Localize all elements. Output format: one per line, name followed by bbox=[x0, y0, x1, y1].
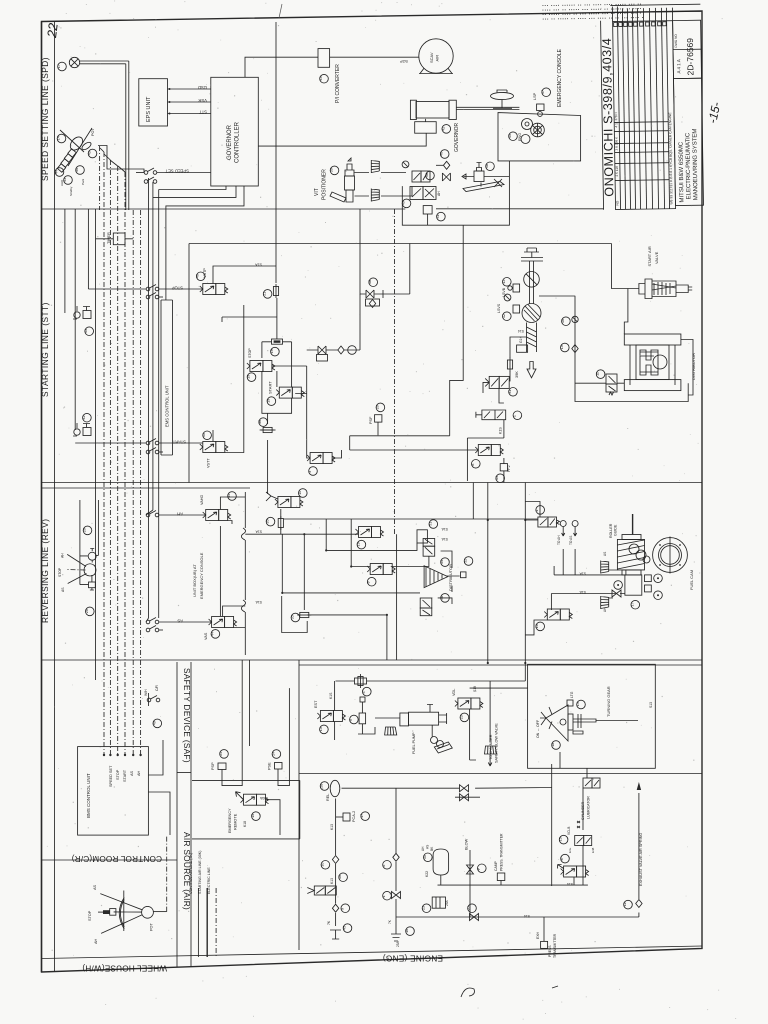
svg-text:44: 44 bbox=[210, 632, 214, 636]
valve V11 bbox=[606, 374, 617, 395]
svg-text:CAMP: CAMP bbox=[494, 860, 498, 871]
bottle riser bbox=[440, 875, 442, 885]
follower box bbox=[625, 575, 651, 595]
emergency remote valve bbox=[236, 792, 269, 806]
svg-text:POT: POT bbox=[150, 923, 154, 931]
circle tag 54 bbox=[440, 558, 449, 567]
diamond on riser bbox=[332, 856, 338, 864]
VDL riser down bbox=[470, 709, 476, 760]
svg-text:AS: AS bbox=[130, 770, 134, 776]
speed set switch S-SET bbox=[136, 168, 211, 174]
svg-text:56: 56 bbox=[75, 168, 79, 172]
circle tag 42t bbox=[82, 413, 91, 422]
svg-text:AH: AH bbox=[137, 770, 141, 776]
svg-text:S14: S14 bbox=[524, 914, 530, 918]
riser from sub box bbox=[450, 225, 464, 436]
wires at 435/448 bbox=[332, 436, 478, 458]
svg-text:EST: EST bbox=[314, 700, 318, 708]
circle tag 19r bbox=[356, 540, 365, 549]
grid h550 bbox=[326, 543, 417, 550]
svg-text:MANOEUVRING SYSTEM: MANOEUVRING SYSTEM bbox=[692, 129, 699, 201]
svg-text:AS: AS bbox=[61, 587, 65, 592]
svg-text:VDL: VDL bbox=[452, 689, 456, 696]
TO AH arrow bbox=[557, 521, 566, 546]
svg-text:FUEL PUMP: FUEL PUMP bbox=[412, 732, 416, 754]
svg-text:AIR: AIR bbox=[435, 55, 440, 62]
circle tag 31k bbox=[508, 388, 517, 397]
svg-text:STOP: STOP bbox=[58, 567, 62, 577]
circle tag 44s bbox=[210, 630, 219, 639]
restrictor below AH valve bbox=[278, 516, 283, 530]
lever on AH valve bbox=[266, 492, 278, 501]
circle tag 26b bbox=[85, 607, 94, 616]
svg-text:VALVE: VALVE bbox=[654, 251, 659, 264]
valve below turning gear bbox=[583, 778, 600, 788]
svg-text:K13: K13 bbox=[330, 824, 334, 830]
LSVB limit switch bbox=[502, 284, 520, 297]
svg-text:10: 10 bbox=[320, 863, 324, 867]
svg-text:LTG: LTG bbox=[570, 691, 574, 698]
svg-text:TO AH: TO AH bbox=[557, 535, 561, 545]
circle tag 17f bbox=[630, 600, 639, 609]
TO AS arrow bbox=[569, 521, 578, 546]
circle tag 1r bbox=[535, 506, 544, 515]
svg-text:9: 9 bbox=[367, 582, 371, 584]
section divider REV/SAF bbox=[42, 659, 703, 661]
svg-text:12: 12 bbox=[502, 314, 506, 318]
wire VAHD right riser bbox=[220, 497, 245, 524]
start pilot sub-box bbox=[262, 342, 292, 424]
wire VAST right bbox=[223, 606, 246, 628]
svg-text:22: 22 bbox=[44, 21, 61, 39]
second contact row start bbox=[146, 448, 163, 454]
svg-text:24: 24 bbox=[219, 752, 223, 756]
hand pull valve V1 bbox=[476, 410, 506, 420]
svg-text:STOP: STOP bbox=[88, 910, 92, 921]
circle tag 43b bbox=[63, 176, 72, 185]
fuel pump link element bbox=[358, 697, 375, 734]
long vertical 393.6 bbox=[394, 209, 396, 534]
restrictor on riser bbox=[273, 284, 278, 298]
svg-text:S1A: S1A bbox=[579, 590, 586, 594]
riser x245 with breaks bbox=[244, 492, 246, 655]
wire VSR bbox=[168, 98, 211, 103]
svg-text:DWG NO: DWG NO bbox=[674, 34, 678, 48]
wire run w1 bbox=[64, 209, 66, 313]
circle tag 40 bbox=[425, 171, 434, 180]
svg-text:K22: K22 bbox=[425, 871, 429, 877]
accumulator small bbox=[432, 897, 449, 908]
circle tag 52 bbox=[464, 557, 473, 566]
pipe upper segment bbox=[530, 261, 534, 304]
ENG label circle 45 bbox=[508, 132, 522, 141]
svg-text:VSTT: VSTT bbox=[206, 458, 210, 468]
circle tag 44 bbox=[55, 168, 64, 177]
svg-text:CYLINDER: CYLINDER bbox=[581, 801, 585, 820]
circle tag 8v bbox=[471, 460, 480, 469]
wire run w2 bbox=[74, 209, 76, 430]
svg-text:AHD: AHD bbox=[60, 179, 64, 186]
circle tag 14 bbox=[57, 134, 66, 143]
svg-text:13: 13 bbox=[319, 727, 323, 731]
svg-text:BMS CONTROL UNIT: BMS CONTROL UNIT bbox=[86, 773, 91, 818]
valve V10r bbox=[544, 609, 572, 620]
main pipe K14 lower bbox=[396, 916, 639, 918]
svg-text:AH: AH bbox=[603, 607, 607, 612]
circle tag 10a bbox=[298, 489, 307, 498]
svg-text:EMERGENCY CONSOLE: EMERGENCY CONSOLE bbox=[557, 48, 563, 107]
circle tag 30b bbox=[423, 853, 432, 862]
wire run w6 electric bbox=[109, 160, 111, 755]
grid h519 bbox=[281, 509, 538, 534]
revision table frame bbox=[613, 21, 676, 210]
wheel house telegraph bbox=[88, 884, 154, 944]
circle tag 39 bbox=[330, 166, 339, 175]
wires below controller bbox=[153, 186, 244, 300]
inner box top line bbox=[189, 243, 612, 245]
circle tag 1e bbox=[382, 891, 391, 900]
circle tag 42 bbox=[441, 125, 450, 134]
svg-text:S1A: S1A bbox=[441, 527, 448, 531]
pilot box 41 bbox=[423, 206, 445, 221]
circle tag 10air bbox=[320, 861, 329, 870]
svg-text:51: 51 bbox=[428, 522, 432, 526]
riser x220 bbox=[219, 526, 221, 616]
diamond 2 on riser bbox=[332, 904, 338, 912]
circle tag 12p bbox=[502, 312, 511, 321]
wire lamp to riser bbox=[80, 61, 129, 210]
svg-text:1: 1 bbox=[382, 896, 386, 898]
left label strip divider bbox=[54, 21, 56, 971]
title block left boundary bbox=[601, 21, 604, 210]
svg-text:24: 24 bbox=[271, 752, 275, 756]
air supply line to engine bbox=[342, 764, 552, 926]
svg-text:EPS UNIT: EPS UNIT bbox=[146, 96, 152, 122]
box wire V1r bbox=[525, 502, 540, 521]
svg-text:2 5 118: 2 5 118 bbox=[615, 166, 619, 177]
svg-text:10: 10 bbox=[535, 624, 539, 628]
svg-text:14: 14 bbox=[57, 136, 61, 140]
LSP valve bbox=[533, 92, 544, 116]
svg-text:VIT: VIT bbox=[314, 188, 320, 196]
revision row lines bbox=[614, 122, 669, 181]
7K reducing tee bbox=[327, 920, 341, 939]
K1S riser bbox=[503, 420, 505, 438]
wire VIT to valve cluster bbox=[355, 173, 413, 197]
spring comb AS bbox=[601, 561, 609, 574]
svg-text:8: 8 bbox=[560, 858, 564, 860]
AS wire row bbox=[146, 618, 212, 624]
svg-text:PCA-2: PCA-2 bbox=[352, 811, 356, 822]
circle tag 51 bbox=[428, 520, 437, 529]
wire run w11 bbox=[148, 178, 150, 618]
elbow to 39K valve bbox=[509, 337, 526, 381]
svg-text:AH: AH bbox=[177, 512, 183, 517]
circle tag 12e bbox=[623, 900, 632, 909]
revision table header boxes bbox=[614, 22, 667, 27]
svg-text:K1S: K1S bbox=[499, 427, 503, 434]
svg-text:STARTING LINE (STT): STARTING LINE (STT) bbox=[40, 302, 50, 397]
circle tag 56 bbox=[75, 166, 84, 175]
svg-text:36: 36 bbox=[258, 420, 262, 424]
fuel pump bbox=[375, 705, 452, 754]
circle tag 4s bbox=[362, 687, 371, 696]
manual valve on riser bbox=[307, 886, 336, 895]
P/I converter U-PI bbox=[318, 49, 330, 68]
exhaust valve air spring line bbox=[638, 793, 640, 917]
circle tag 44r bbox=[227, 492, 236, 501]
solenoid valve VSTP bbox=[200, 284, 228, 295]
circle tag 18t bbox=[551, 741, 560, 750]
svg-text:AH: AH bbox=[437, 191, 441, 196]
air bottle 30L bbox=[425, 849, 449, 877]
sub box lower bbox=[282, 596, 308, 633]
valve V9 bbox=[367, 564, 395, 575]
svg-text:STARTING AIR LINE (30K): STARTING AIR LINE (30K) bbox=[198, 851, 202, 894]
svg-text:S13: S13 bbox=[649, 702, 653, 708]
svg-text:TO AS: TO AS bbox=[569, 536, 573, 545]
wire run w10 electric bbox=[140, 210, 142, 755]
throttle circle on loop bbox=[572, 316, 578, 322]
svg-text:AH: AH bbox=[421, 846, 425, 851]
lamp L1 bbox=[69, 57, 79, 67]
svg-text:25A: 25A bbox=[396, 940, 400, 947]
svg-text:20: 20 bbox=[375, 405, 379, 409]
svg-text:12: 12 bbox=[623, 902, 627, 906]
svg-text:EXHAUST VALVE AIR SPRING: EXHAUST VALVE AIR SPRING bbox=[639, 833, 643, 886]
stop valve VSTP2 bbox=[247, 361, 275, 372]
drain box bbox=[517, 345, 528, 352]
svg-text:4: 4 bbox=[362, 691, 366, 693]
governor controller U-GC bbox=[211, 77, 258, 186]
SAF/ENG boundary bbox=[299, 773, 702, 775]
svg-text:S1A: S1A bbox=[579, 572, 586, 576]
svg-text:EMERGENCY CONSOLE: EMERGENCY CONSOLE bbox=[199, 552, 204, 599]
circle tag 10r bbox=[535, 622, 544, 631]
circle tags 7/8 bbox=[654, 574, 663, 600]
circle tag 13L bbox=[559, 835, 568, 844]
circle tag 19a bbox=[270, 347, 279, 356]
svg-text:EXH: EXH bbox=[536, 931, 540, 939]
toggle unit A bbox=[73, 306, 91, 319]
svg-text:S14: S14 bbox=[518, 329, 524, 333]
grid h534 bbox=[245, 533, 358, 535]
legend lines bbox=[189, 851, 216, 957]
wire BMS right bbox=[148, 740, 170, 835]
svg-text:Stndby: Stndby bbox=[69, 186, 73, 196]
svg-text:19: 19 bbox=[356, 542, 360, 546]
wire speed set lower contact bbox=[144, 177, 157, 183]
REL relief bottle bbox=[326, 780, 340, 801]
svg-text:E4+: E4+ bbox=[568, 847, 572, 853]
bow tie near follower bbox=[612, 590, 621, 597]
circle tag 14f bbox=[495, 474, 504, 483]
svg-text:40: 40 bbox=[425, 173, 429, 177]
svg-text:FUEL CAM: FUEL CAM bbox=[689, 570, 694, 590]
svg-text:P/I CONVERTER: P/I CONVERTER bbox=[335, 64, 341, 103]
START wire row bbox=[75, 439, 203, 445]
circle tag 46 bbox=[440, 150, 449, 159]
svg-text:A 4 1 A: A 4 1 A bbox=[676, 59, 681, 73]
svg-text:STOP: STOP bbox=[116, 769, 120, 780]
system title box bbox=[674, 78, 704, 205]
STOP wire row bbox=[88, 285, 202, 291]
diamond eng bbox=[393, 853, 399, 861]
svg-text:Park: Park bbox=[81, 178, 85, 185]
S1A wire upper bbox=[554, 549, 626, 575]
svg-text:ELECTRIC LINE: ELECTRIC LINE bbox=[207, 867, 211, 894]
main auto stop valve ball bbox=[522, 304, 541, 323]
bottom label strip line bbox=[42, 946, 703, 959]
solenoid valve VSTT bbox=[200, 442, 228, 453]
stray crease mark bbox=[279, 4, 282, 18]
svg-text:C/R: C/R bbox=[155, 685, 159, 691]
throttle X valve 2 bbox=[307, 294, 360, 361]
long vertical 409.8 bbox=[409, 244, 411, 295]
svg-text:MITSUI B&W 6S50MC: MITSUI B&W 6S50MC bbox=[678, 141, 685, 202]
EMS control unit box bbox=[161, 300, 173, 455]
svg-text:ELECTRIC-PNEUMATIC: ELECTRIC-PNEUMATIC bbox=[685, 132, 692, 199]
svg-text:SPEED SET: SPEED SET bbox=[109, 765, 113, 787]
svg-text:ENGINE (ENG): ENGINE (ENG) bbox=[383, 954, 443, 963]
emergency remote box bbox=[192, 780, 300, 839]
roller guide bbox=[617, 514, 650, 575]
VDL valve bbox=[455, 698, 483, 709]
circle tag 13p bbox=[502, 278, 511, 287]
svg-text:9: 9 bbox=[340, 908, 344, 910]
circle tag 15a bbox=[251, 812, 260, 821]
svg-text:58: 58 bbox=[320, 784, 324, 788]
svg-text:41: 41 bbox=[436, 214, 440, 218]
circle tag 23e bbox=[422, 904, 431, 913]
console small gauge G2 bbox=[521, 135, 530, 144]
svg-text:S1A: S1A bbox=[255, 530, 262, 534]
svg-text:START: START bbox=[123, 769, 127, 782]
wire run w8 electric bbox=[124, 172, 126, 755]
VIT air spring comb upper bbox=[371, 160, 379, 173]
circle tag 45a bbox=[343, 924, 352, 933]
control room divider bbox=[42, 859, 178, 861]
svg-text:13: 13 bbox=[502, 280, 506, 284]
maker box bbox=[673, 20, 702, 78]
main pipe K14 upper bbox=[438, 884, 588, 886]
circle tag 35 bbox=[290, 613, 299, 622]
svg-text:15: 15 bbox=[560, 345, 564, 349]
svg-text:13: 13 bbox=[559, 837, 563, 841]
second contact AS bbox=[146, 626, 163, 632]
circle tag 23v bbox=[459, 713, 468, 722]
svg-text:CONTROL ROOM(C/R): CONTROL ROOM(C/R) bbox=[72, 854, 162, 863]
svg-text:G1+: G1+ bbox=[519, 336, 523, 343]
revision scribble rows above border bbox=[542, 2, 644, 21]
valve V1r bbox=[538, 517, 560, 527]
VIT air spring comb lower bbox=[371, 189, 379, 202]
wire STT bbox=[168, 110, 211, 115]
circle tag 9air bbox=[340, 904, 349, 913]
wire run w4 bbox=[95, 209, 97, 680]
pressure regulator in console line bbox=[462, 163, 509, 182]
svg-text:PSE: PSE bbox=[268, 762, 272, 770]
svg-text:25A: 25A bbox=[445, 899, 449, 906]
svg-text:23: 23 bbox=[422, 906, 426, 910]
circle tag 15L bbox=[560, 343, 569, 352]
circle tag 40b bbox=[402, 199, 411, 208]
stray pen arc bbox=[461, 988, 474, 997]
diamond exh bbox=[636, 900, 642, 908]
svg-text:REVERSING LINE (REV): REVERSING LINE (REV) bbox=[40, 518, 50, 623]
circle tag 47 bbox=[541, 88, 550, 97]
circle tag 19c bbox=[266, 397, 275, 406]
svg-text:45: 45 bbox=[202, 433, 206, 437]
turning gear device bbox=[540, 700, 638, 741]
svg-text:19: 19 bbox=[270, 349, 274, 353]
solenoid valve V40 bbox=[412, 171, 430, 182]
svg-text:AS: AS bbox=[426, 845, 430, 849]
svg-text:3 8 298 K: 3 8 298 K bbox=[614, 136, 618, 151]
junction dots bbox=[281, 519, 526, 664]
start valve V-START bbox=[276, 387, 304, 398]
diamond fitting bbox=[436, 161, 450, 169]
turning gear box bbox=[528, 664, 656, 768]
svg-text:19: 19 bbox=[266, 399, 270, 403]
svg-text:LSVS: LSVS bbox=[497, 303, 501, 313]
svg-text:17: 17 bbox=[630, 603, 634, 607]
wire run w14 bbox=[158, 190, 160, 619]
svg-text:SAFETY/BLOW VALVE: SAFETY/BLOW VALVE bbox=[495, 723, 499, 763]
wire V10r to x525 bbox=[525, 620, 547, 635]
svg-text:47: 47 bbox=[541, 90, 545, 94]
start air valve assembly bbox=[639, 279, 692, 299]
PSF pressure switch bbox=[369, 403, 385, 435]
SAF/AIR strip verticals bbox=[176, 662, 178, 967]
svg-text:14: 14 bbox=[576, 702, 580, 706]
fuel pump spring comb bbox=[384, 727, 397, 735]
valve block 4/2 V-AHAS bbox=[410, 187, 441, 200]
circle tag 49 bbox=[152, 719, 161, 728]
speed handle lever cluster (W/H pot) bbox=[57, 128, 95, 173]
grid h593 bbox=[282, 534, 420, 593]
exh press transmitter bbox=[536, 917, 557, 958]
svg-text:S1A: S1A bbox=[255, 600, 262, 604]
svg-text:VAHD: VAHD bbox=[200, 494, 204, 505]
svg-text:TURNING GEAR: TURNING GEAR bbox=[606, 686, 611, 717]
svg-text:SCAV: SCAV bbox=[429, 52, 434, 63]
circle tag 16L bbox=[561, 317, 570, 326]
svg-text:41: 41 bbox=[84, 329, 88, 333]
main air riser bbox=[335, 799, 337, 927]
svg-text:44: 44 bbox=[55, 170, 59, 174]
circle tag 1h bbox=[512, 411, 521, 420]
svg-text:DISTRIBUTOR: DISTRIBUTOR bbox=[448, 564, 453, 591]
svg-text:K1S: K1S bbox=[329, 692, 333, 699]
svg-text:GSD: GSD bbox=[198, 85, 207, 90]
fuel distributor cluster bbox=[417, 530, 466, 616]
svg-text:7K: 7K bbox=[327, 920, 331, 925]
wire run w12 bbox=[152, 182, 154, 510]
SAF circuit top line bbox=[336, 681, 528, 742]
svg-text:16: 16 bbox=[561, 319, 565, 323]
wire 39K down bbox=[483, 382, 504, 403]
circle tag P bbox=[477, 864, 486, 873]
svg-text:EMERGENCY: EMERGENCY bbox=[228, 808, 232, 833]
svg-text:16: 16 bbox=[338, 875, 342, 879]
restrictor 35 bbox=[297, 612, 311, 617]
svg-text:AS: AS bbox=[177, 619, 183, 624]
svg-text:26: 26 bbox=[85, 609, 89, 613]
svg-text:21: 21 bbox=[263, 292, 267, 296]
wire VSTT right bbox=[213, 305, 244, 453]
svg-text:39K: 39K bbox=[515, 371, 519, 378]
